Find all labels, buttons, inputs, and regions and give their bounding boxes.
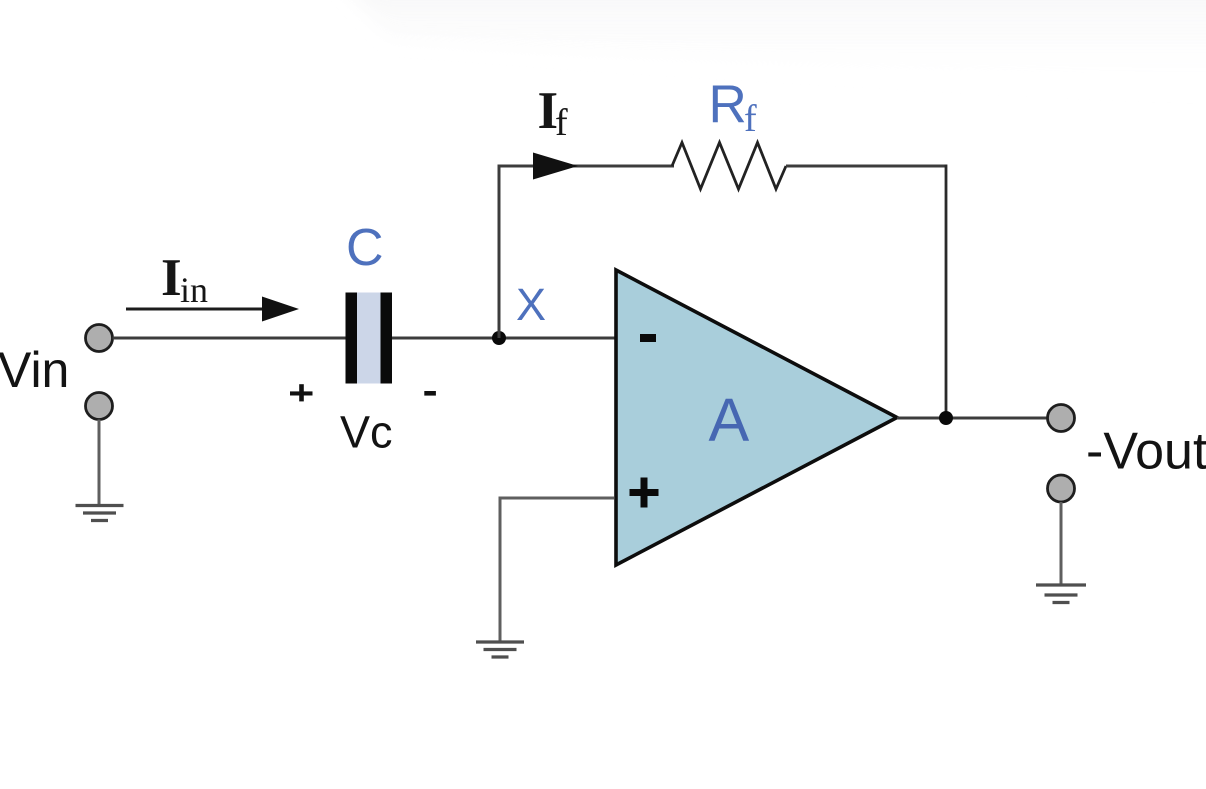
- wire feedback up: [498, 165, 501, 339]
- op-amp A body: [616, 270, 897, 565]
- svg-text:Vc: Vc: [340, 407, 393, 458]
- wire input Vin to op-amp: [113, 337, 617, 340]
- terminal Vin bottom: [86, 393, 113, 420]
- op-amp inverting input symbol: [640, 334, 656, 342]
- svg-text:f: f: [555, 102, 568, 144]
- wire feedback top right: [786, 165, 946, 168]
- terminal Vout top: [1048, 405, 1075, 432]
- wire output: [897, 417, 1048, 420]
- svg-text:R: R: [709, 75, 747, 134]
- wire Vin ground stem: [98, 420, 101, 505]
- wire noninverting input: [500, 498, 614, 641]
- ground GND1: [76, 506, 124, 521]
- ground GND3: [1036, 585, 1086, 603]
- svg-text:I: I: [161, 249, 182, 307]
- label minus (capacitor): [424, 391, 436, 396]
- ground GND2: [476, 642, 524, 657]
- current arrow Iin: [126, 308, 266, 311]
- wire Vout ground stem: [1060, 502, 1063, 584]
- svg-text:f: f: [744, 98, 757, 140]
- svg-text:in: in: [180, 270, 208, 310]
- node output junction: [939, 411, 953, 425]
- wire feedback top left: [498, 165, 675, 168]
- op-amp non-inverting input symbol: [630, 478, 659, 508]
- wire feedback down: [945, 165, 948, 419]
- terminal Vin top: [86, 325, 113, 352]
- terminal Vout bottom: [1048, 475, 1075, 502]
- svg-text:-Vout: -Vout: [1086, 423, 1206, 481]
- current arrow If: [533, 153, 578, 180]
- resistor Rf: [672, 143, 786, 190]
- svg-text:C: C: [346, 219, 384, 277]
- svg-text:Vin: Vin: [0, 342, 69, 398]
- svg-text:A: A: [709, 386, 750, 454]
- capacitor C: [357, 293, 381, 384]
- node X: [492, 331, 506, 345]
- label plus (capacitor): [290, 384, 313, 401]
- svg-text:X: X: [516, 279, 546, 330]
